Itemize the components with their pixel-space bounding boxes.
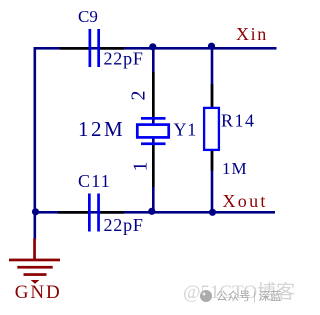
ground symbol bar 1	[9, 259, 60, 262]
label C11 designator	[78, 171, 111, 191]
junction dot bottom left	[32, 208, 39, 215]
label C11 value 22pF	[104, 215, 144, 235]
svg-text:Y1: Y1	[174, 120, 198, 140]
wire: R14 branch vertical	[211, 47, 214, 213]
pin number 2 (rotated)	[128, 91, 150, 101]
junction dot top crystal	[149, 43, 156, 50]
junction dot top R14	[208, 43, 215, 50]
svg-text:1M: 1M	[222, 159, 248, 178]
watermark caption	[216, 289, 282, 303]
resistor R14 pin top (black)	[211, 84, 214, 107]
svg-text:2: 2	[128, 91, 150, 101]
label R14 designator	[221, 110, 256, 130]
svg-text:22pF: 22pF	[104, 49, 144, 69]
svg-text:Xin: Xin	[236, 24, 268, 44]
svg-text:GND: GND	[15, 282, 62, 303]
svg-text:公众号 | 深蓝: 公众号 | 深蓝	[216, 289, 282, 303]
junction dot bottom R14	[209, 209, 216, 216]
capacitor C11 pin right (black)	[100, 211, 124, 214]
label R14 value 1M	[222, 159, 248, 178]
ground symbol triangle	[31, 280, 40, 284]
wire: bottom horizontal net Xout	[34, 211, 275, 214]
watermark icon	[200, 290, 212, 302]
svg-text:C11: C11	[78, 171, 111, 191]
label C9 value 22pF	[104, 49, 144, 69]
capacitor C9 pin right (black)	[100, 47, 125, 50]
capacitor C9 pin left (black)	[60, 47, 89, 50]
watermark 51CTO	[183, 281, 295, 303]
capacitor C11 plates	[88, 194, 100, 232]
pin number 1 (rotated)	[130, 162, 152, 172]
crystal Y1 pin 1 (black, bottom)	[152, 145, 155, 187]
resistor R14 body	[204, 108, 219, 150]
svg-text:Xout: Xout	[223, 191, 268, 211]
crystal Y1 body	[137, 117, 168, 145]
svg-text:R14: R14	[221, 110, 256, 130]
wire: crystal branch vertical	[152, 47, 155, 213]
net label Xin	[236, 24, 268, 44]
net label GND	[15, 282, 62, 303]
label Y1 value 12M	[78, 117, 125, 141]
wire: top horizontal net Xin	[34, 47, 277, 50]
ground symbol stem	[33, 239, 36, 260]
svg-text:12M: 12M	[78, 117, 125, 141]
ground symbol bar 3	[24, 273, 47, 276]
resistor R14 pin bottom (black)	[211, 151, 214, 171]
label C9 designator	[78, 7, 98, 26]
net label Xout	[223, 191, 268, 211]
crystal Y1 pin 2 (black, top)	[152, 72, 155, 118]
capacitor C11 pin left (black)	[58, 211, 89, 214]
label Y1 designator	[174, 120, 198, 140]
wire: left vertical from top wire down to GND	[34, 47, 37, 240]
svg-text:C9: C9	[78, 7, 98, 26]
capacitor C9 plates	[89, 29, 101, 67]
svg-text:1: 1	[130, 162, 152, 172]
ground symbol bar 2	[17, 266, 52, 269]
junction dot bottom crystal	[148, 208, 155, 215]
svg-text:22pF: 22pF	[104, 215, 144, 235]
